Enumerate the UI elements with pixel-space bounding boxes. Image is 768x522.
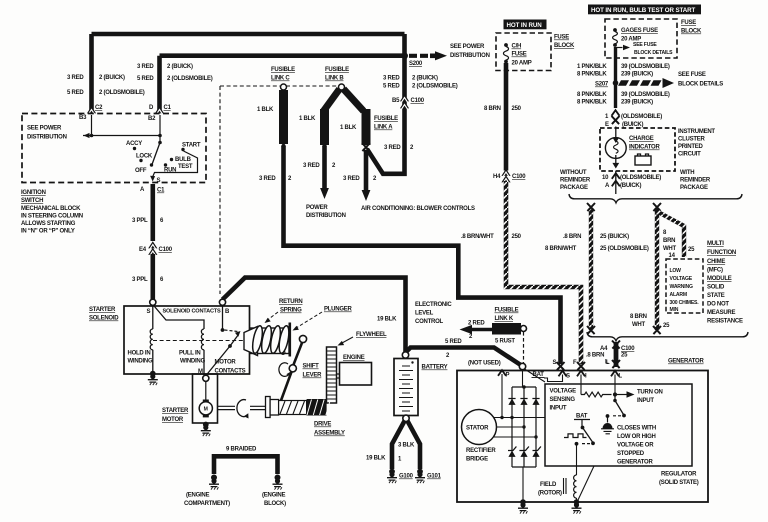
- svg-text:VOLTAGE OR: VOLTAGE OR: [617, 443, 654, 449]
- svg-text:DISTRIBUTION: DISTRIBUTION: [450, 53, 490, 59]
- svg-text:3 BLK: 3 BLK: [398, 443, 415, 449]
- svg-text:INPUT: INPUT: [637, 398, 654, 404]
- svg-text:BLOCK: BLOCK: [554, 43, 575, 49]
- svg-text:GENERATOR: GENERATOR: [617, 460, 653, 466]
- svg-text:HOT IN RUN: HOT IN RUN: [507, 22, 543, 29]
- svg-text:AIR CONDITIONING: BLOWER CONTR: AIR CONDITIONING: BLOWER CONTROLS: [361, 206, 475, 212]
- svg-text:3 PPL: 3 PPL: [132, 277, 148, 283]
- svg-text:S: S: [566, 374, 570, 380]
- svg-text:SEE FUSE: SEE FUSE: [633, 42, 657, 48]
- rotation arc at shift lever: [279, 363, 289, 377]
- svg-text:2 (OLDSMOBILE): 2 (OLDSMOBILE): [99, 90, 145, 96]
- wire: .8 BRN/WHT 250 to generator I terminal (striped): [506, 181, 581, 364]
- svg-text:(OLDSMOBILE): (OLDSMOBILE): [620, 175, 661, 181]
- svg-text:FUSE: FUSE: [681, 20, 696, 26]
- svg-text:1 BLK: 1 BLK: [257, 107, 274, 113]
- svg-text:ALARM: ALARM: [670, 292, 687, 298]
- svg-text:CLUSTER: CLUSTER: [678, 137, 706, 143]
- svg-text:250: 250: [512, 106, 522, 112]
- svg-text:(SOLID STATE): (SOLID STATE): [659, 480, 699, 486]
- switch: closes with low/high voltage: [614, 397, 616, 401]
- svg-text:5 RED: 5 RED: [67, 90, 84, 96]
- connector C1: [155, 106, 164, 114]
- svg-text:39 (OLDSMOBILE): 39 (OLDSMOBILE): [621, 92, 670, 98]
- svg-text:14: 14: [669, 253, 676, 259]
- wire: 8 BRN 250 from C/H fuse: [504, 63, 509, 171]
- svg-text:8 BRN/WHT: 8 BRN/WHT: [545, 246, 577, 252]
- ground: engine compartment: [211, 475, 217, 481]
- banner HOT IN RUN: [504, 20, 547, 30]
- svg-text:39 (OLDSMOBILE): 39 (OLDSMOBILE): [621, 64, 670, 70]
- svg-text:C2: C2: [95, 105, 103, 111]
- svg-text:BAT: BAT: [576, 414, 588, 420]
- svg-text:MOTOR: MOTOR: [215, 360, 237, 366]
- svg-text:HOLD IN: HOLD IN: [128, 351, 151, 357]
- svg-text:S: S: [553, 360, 557, 366]
- MFC module box: [666, 259, 703, 313]
- svg-text:3 RED: 3 RED: [383, 76, 400, 82]
- svg-text:STATE: STATE: [707, 293, 725, 299]
- svg-text:DISTRIBUTION: DISTRIBUTION: [27, 135, 67, 141]
- wire: 3 RED feed to ignition C2: [92, 34, 405, 110]
- svg-text:LOW: LOW: [670, 268, 682, 274]
- svg-text:STATOR: STATOR: [466, 426, 489, 432]
- hold-in winding: [152, 306, 154, 330]
- wire: link B output arrow to power distribution: [322, 146, 327, 188]
- svg-text:WITH: WITH: [680, 170, 694, 176]
- starter motor: [193, 374, 218, 423]
- connector A4 C100 and L stub: [614, 342, 619, 367]
- svg-text:RECTIFIER: RECTIFIER: [466, 448, 496, 454]
- wire: 5 RED battery to generator BAT: [406, 348, 522, 366]
- svg-text:BLOCK): BLOCK): [264, 501, 286, 507]
- svg-text:3 RED: 3 RED: [137, 64, 154, 70]
- svg-text:POWER: POWER: [306, 205, 328, 211]
- svg-text:DO NOT: DO NOT: [707, 302, 729, 308]
- svg-text:WHT: WHT: [663, 246, 676, 252]
- svg-text:VOLTAGE: VOLTAGE: [550, 389, 577, 395]
- svg-text:PULL IN: PULL IN: [179, 351, 200, 357]
- svg-text:GENERATOR: GENERATOR: [668, 359, 704, 365]
- svg-text:10: 10: [602, 175, 609, 181]
- svg-text:FIELD: FIELD: [540, 482, 557, 488]
- wire: battery negative legs: [403, 415, 409, 421]
- svg-text:C1: C1: [157, 188, 165, 194]
- svg-text:B3: B3: [79, 115, 87, 121]
- svg-text:MULTI: MULTI: [707, 241, 724, 247]
- svg-text:ENGINE: ENGINE: [343, 355, 365, 361]
- motor contacts: [222, 306, 224, 329]
- svg-text:CHARGE: CHARGE: [629, 136, 654, 142]
- svg-text:(NOT USED): (NOT USED): [468, 361, 501, 367]
- ground: engine block: [275, 475, 281, 481]
- svg-text:BRN: BRN: [663, 238, 675, 244]
- svg-text:C100: C100: [621, 346, 635, 352]
- svg-text:5 RUST: 5 RUST: [495, 339, 515, 345]
- svg-text:FUSIBLE: FUSIBLE: [374, 116, 398, 122]
- wire: main 3 RED feed S200 to battery junction: [367, 34, 407, 174]
- wire: 19 BLK battery positive cable to solenoid B: [223, 275, 406, 352]
- svg-text:.8 BRN: .8 BRN: [586, 353, 604, 359]
- svg-text:LINK A: LINK A: [374, 125, 393, 131]
- svg-text:SOLID: SOLID: [707, 285, 725, 291]
- ground: hold-in winding: [150, 371, 156, 377]
- svg-text:300 CHIMES.: 300 CHIMES.: [670, 300, 700, 306]
- svg-text:MOTOR: MOTOR: [162, 417, 184, 423]
- plunger linkage dashed: [153, 340, 243, 342]
- svg-text:REMINDER: REMINDER: [560, 178, 591, 184]
- svg-text:TURN ON: TURN ON: [637, 390, 663, 396]
- svg-text:2 (BUICK): 2 (BUICK): [412, 76, 438, 82]
- svg-text:(ENGINE: (ENGINE: [186, 493, 210, 499]
- svg-text:BLOCK: BLOCK: [681, 29, 702, 35]
- svg-text:LOCK: LOCK: [136, 154, 153, 160]
- svg-text:LINK K: LINK K: [495, 316, 514, 322]
- svg-text:MIN: MIN: [670, 307, 679, 313]
- terminal M: [203, 375, 209, 381]
- svg-text:5 RED: 5 RED: [383, 84, 400, 90]
- svg-text:8 BRN: 8 BRN: [484, 106, 501, 112]
- svg-text:.8 BRN: .8 BRN: [563, 234, 581, 240]
- svg-text:IN STEERING COLUMN: IN STEERING COLUMN: [21, 214, 83, 220]
- svg-text:WINDING: WINDING: [180, 359, 205, 365]
- svg-text:INDICATOR: INDICATOR: [629, 145, 660, 151]
- svg-text:C100: C100: [159, 247, 173, 253]
- svg-text:VOLTAGE: VOLTAGE: [670, 276, 693, 282]
- svg-text:8 PNK/BLK: 8 PNK/BLK: [577, 72, 607, 78]
- svg-text:CONTROL: CONTROL: [415, 319, 443, 325]
- svg-text:MODULE: MODULE: [707, 276, 732, 282]
- svg-text:FUSIBLE: FUSIBLE: [325, 67, 349, 73]
- svg-text:HOT IN RUN, BULB TEST OR START: HOT IN RUN, BULB TEST OR START: [591, 7, 695, 14]
- shift lever: [299, 335, 306, 342]
- svg-text:239 (BUICK): 239 (BUICK): [621, 100, 653, 106]
- svg-text:3 RED: 3 RED: [343, 176, 360, 182]
- resistor: [581, 392, 611, 397]
- brace: reminder package split: [569, 194, 742, 203]
- generator box: [457, 371, 708, 503]
- svg-text:STOPPED: STOPPED: [617, 451, 645, 457]
- svg-text:FUSIBLE: FUSIBLE: [271, 67, 295, 73]
- svg-text:F: F: [573, 360, 577, 366]
- svg-text:SWITCH: SWITCH: [21, 198, 43, 204]
- ground G100: [389, 469, 395, 475]
- switch: field drive: [583, 428, 593, 443]
- svg-text:P: P: [506, 373, 510, 379]
- fusible link A: [344, 89, 364, 111]
- svg-text:INSTRUMENT: INSTRUMENT: [678, 129, 715, 135]
- svg-text:LOW OR HIGH: LOW OR HIGH: [617, 434, 656, 440]
- svg-text:WITHOUT: WITHOUT: [560, 170, 587, 176]
- svg-text:CHIME: CHIME: [707, 259, 725, 265]
- svg-text:SENSING: SENSING: [550, 397, 576, 403]
- diodes lower: [508, 451, 539, 457]
- svg-text:3 RED: 3 RED: [259, 176, 276, 182]
- wire: ignition feed bus with arrow to power distribution: [83, 115, 160, 143]
- svg-text:LEVEL: LEVEL: [415, 311, 434, 317]
- svg-text:ACCY: ACCY: [126, 141, 142, 147]
- svg-text:19 BLK: 19 BLK: [377, 317, 397, 323]
- stator: [462, 410, 497, 445]
- svg-text:REGULATOR: REGULATOR: [661, 472, 697, 478]
- svg-text:FUNCTION: FUNCTION: [707, 250, 736, 256]
- svg-text:3 RED: 3 RED: [303, 163, 320, 169]
- svg-text:WINDING: WINDING: [128, 359, 153, 365]
- svg-text:SOLENOID CONTACTS: SOLENOID CONTACTS: [163, 309, 221, 315]
- svg-text:25: 25: [621, 353, 628, 359]
- svg-text:WARNING: WARNING: [670, 284, 693, 290]
- svg-text:2 (BUICK): 2 (BUICK): [99, 75, 125, 81]
- svg-text:3 PPL: 3 PPL: [132, 218, 148, 224]
- svg-text:S207: S207: [595, 82, 609, 88]
- svg-text:H4: H4: [493, 174, 501, 180]
- svg-text:IN “N” OR “P” ONLY: IN “N” OR “P” ONLY: [21, 229, 75, 235]
- svg-text:REMINDER: REMINDER: [680, 178, 711, 184]
- svg-text:LEVER: LEVER: [303, 373, 323, 379]
- svg-text:19 BLK: 19 BLK: [366, 456, 386, 462]
- arrow: turn on input: [617, 394, 627, 396]
- svg-text:BULB: BULB: [175, 157, 192, 163]
- svg-text:ELECTRONIC: ELECTRONIC: [415, 302, 452, 308]
- svg-text:5 RED: 5 RED: [445, 339, 462, 345]
- C/H fuse block box: [496, 33, 551, 71]
- svg-text:8 PNK/BLK: 8 PNK/BLK: [577, 92, 607, 98]
- ignition switch rotary contacts: [158, 141, 162, 145]
- splice S207: [613, 80, 619, 86]
- stator taps: [494, 417, 545, 419]
- terminal P: [501, 374, 503, 417]
- connector C2: [87, 106, 96, 114]
- hatched arrow: see fuse block details: [618, 80, 662, 85]
- wire: indicator output: [615, 171, 617, 194]
- svg-text:LINK B: LINK B: [325, 76, 344, 82]
- braided ground strap: [214, 456, 278, 474]
- svg-text:S200: S200: [409, 61, 423, 67]
- svg-text:(ROTOR): (ROTOR): [538, 491, 562, 497]
- svg-text:FUSE: FUSE: [512, 52, 527, 58]
- svg-text:RETURN: RETURN: [279, 299, 303, 305]
- svg-text:8 BRN: 8 BRN: [630, 314, 647, 320]
- return spring coils: [251, 325, 291, 354]
- ground: starter motor: [203, 422, 209, 428]
- drive assembly: [218, 406, 235, 409]
- battery icon: [635, 156, 651, 165]
- svg-text:5 RED: 5 RED: [137, 76, 154, 82]
- svg-text:1 PNK/BLK: 1 PNK/BLK: [577, 64, 607, 70]
- svg-text:(OLDSMOBILE): (OLDSMOBILE): [621, 114, 662, 120]
- svg-text:PRINTED: PRINTED: [678, 144, 704, 150]
- terminal I: [577, 362, 585, 370]
- svg-text:CLOSES WITH: CLOSES WITH: [617, 426, 656, 432]
- fuse C/H 20A: [504, 43, 508, 47]
- svg-text:G101: G101: [427, 474, 442, 480]
- svg-text:GAGES FUSE: GAGES FUSE: [621, 28, 658, 34]
- banner HOT IN RUN, BULB TEST OR START: [588, 5, 701, 15]
- svg-text:BLOCK DETAILS: BLOCK DETAILS: [678, 82, 723, 88]
- svg-text:8 PNK/BLK: 8 PNK/BLK: [577, 100, 607, 106]
- svg-text:(MFC): (MFC): [707, 268, 723, 274]
- svg-text:DRIVE: DRIVE: [314, 422, 331, 428]
- svg-text:1 BLK: 1 BLK: [340, 125, 357, 131]
- svg-text:B2: B2: [148, 116, 156, 122]
- svg-text:20 AMP: 20 AMP: [512, 61, 532, 67]
- svg-text:PACKAGE: PACKAGE: [560, 185, 588, 191]
- wire: gages fuse to S207: [614, 47, 617, 108]
- field rotor: [576, 444, 578, 475]
- svg-text:RESISTANCE: RESISTANCE: [707, 319, 743, 325]
- connector 1/E to printed circuit: [612, 110, 620, 116]
- bridge to ground: [522, 467, 524, 502]
- svg-text:C100: C100: [411, 98, 425, 104]
- brace: merge to A4: [587, 332, 748, 341]
- svg-text:WHT: WHT: [632, 322, 645, 328]
- svg-text:S: S: [147, 309, 151, 315]
- svg-text:M: M: [204, 407, 208, 413]
- svg-text:9 BRAIDED: 9 BRAIDED: [226, 447, 257, 453]
- wire: .8 BRN 25 without-reminder branch (striped): [590, 208, 592, 330]
- svg-text:PACKAGE: PACKAGE: [680, 185, 708, 191]
- svg-text:STARTER: STARTER: [89, 307, 116, 313]
- svg-text:CIRCUIT: CIRCUIT: [678, 152, 701, 158]
- starter solenoid box: [124, 306, 250, 374]
- svg-text:S: S: [157, 178, 161, 184]
- pull-in winding: [155, 307, 205, 330]
- svg-text:B5: B5: [392, 98, 400, 104]
- svg-text:250: 250: [512, 234, 522, 240]
- charge indicator bulb: [605, 138, 626, 159]
- svg-text:OFF: OFF: [135, 168, 147, 174]
- svg-text:239 (BUICK): 239 (BUICK): [621, 72, 653, 78]
- splice S200: [402, 53, 408, 59]
- diodes upper: [508, 399, 539, 405]
- wire: link C output 3 RED to generator S: [284, 146, 561, 364]
- svg-text:BATTERY: BATTERY: [422, 365, 448, 371]
- wire: 8 BRN/WHT 25 with-reminder branch (striped): [656, 208, 658, 330]
- charge indicator box: [600, 128, 675, 171]
- svg-text:START: START: [182, 143, 201, 149]
- svg-text:STARTER: STARTER: [162, 408, 189, 414]
- svg-text:BLOCK DETAILS: BLOCK DETAILS: [634, 50, 673, 56]
- battery: [402, 352, 408, 358]
- dashed locator line to fusible links: [220, 86, 338, 294]
- svg-text:E4: E4: [139, 247, 147, 253]
- svg-text:3 RED: 3 RED: [384, 145, 401, 151]
- fuse GAGES 20A: [613, 28, 617, 32]
- svg-text:2 (BUICK): 2 (BUICK): [167, 64, 193, 70]
- wire: link A output arrow to A/C blower: [364, 150, 369, 190]
- svg-text:SEE FUSE: SEE FUSE: [678, 72, 706, 78]
- ignition switch box: [22, 114, 206, 183]
- terminal BAT: [519, 363, 525, 369]
- arrow: see power distribution: [409, 54, 428, 58]
- start detent path: [153, 151, 198, 177]
- svg-text:FUSIBLE: FUSIBLE: [495, 308, 519, 314]
- svg-text:C100: C100: [512, 174, 526, 180]
- svg-text:LINK C: LINK C: [271, 76, 290, 82]
- svg-text:DISTRIBUTION: DISTRIBUTION: [306, 213, 346, 219]
- svg-text:CONTACTS: CONTACTS: [215, 369, 246, 375]
- svg-text:.8 BRN/WHT: .8 BRN/WHT: [461, 234, 494, 240]
- svg-text:25 (OLDSMOBILE): 25 (OLDSMOBILE): [600, 246, 649, 252]
- svg-text:PLUNGER: PLUNGER: [324, 307, 353, 313]
- svg-text:SHIFT: SHIFT: [303, 364, 320, 370]
- terminal B: [219, 299, 225, 305]
- svg-text:3 RED: 3 RED: [67, 75, 84, 81]
- svg-text:C1: C1: [164, 105, 172, 111]
- rectifier bridge frame: [512, 387, 536, 467]
- gages fuse block box: [605, 19, 677, 58]
- svg-text:ALLOWS STARTING: ALLOWS STARTING: [21, 221, 76, 227]
- wire: 3 RED feed to ignition C1: [160, 56, 404, 110]
- svg-text:FUSE: FUSE: [554, 35, 569, 41]
- svg-text:SEE POWER: SEE POWER: [450, 44, 485, 50]
- svg-text:1 BLK: 1 BLK: [299, 116, 316, 122]
- svg-text:2 (OLDSMOBILE): 2 (OLDSMOBILE): [412, 84, 458, 90]
- connector E4 C100: [148, 241, 157, 249]
- svg-text:G100: G100: [399, 474, 414, 480]
- svg-text:25: 25: [663, 323, 670, 329]
- svg-text:MECHANICAL BLOCK: MECHANICAL BLOCK: [21, 206, 81, 212]
- svg-text:C/H: C/H: [512, 44, 522, 50]
- svg-text:BRIDGE: BRIDGE: [466, 457, 488, 463]
- PWM squarewave: [564, 434, 587, 438]
- connector B5 C100: [400, 94, 409, 102]
- svg-text:INPUT: INPUT: [550, 406, 567, 412]
- terminal S: [557, 362, 565, 370]
- svg-text:SPRING: SPRING: [280, 308, 302, 314]
- regulator box: [545, 384, 692, 466]
- wire: 3 PPL start signal: [151, 184, 156, 241]
- svg-text:SOLENOID: SOLENOID: [89, 316, 119, 322]
- svg-text:SEE POWER: SEE POWER: [27, 126, 62, 132]
- svg-text:2 (OLDSMOBILE): 2 (OLDSMOBILE): [167, 76, 213, 82]
- svg-text:ASSEMBLY: ASSEMBLY: [314, 431, 345, 437]
- ground G101: [417, 469, 423, 475]
- svg-text:25: 25: [688, 247, 695, 253]
- svg-text:L: L: [619, 374, 623, 380]
- svg-text:COMPARTMENT): COMPARTMENT): [184, 501, 230, 507]
- connector H4 C100: [501, 169, 510, 177]
- wire: branch to MFC module pin 14 (striped): [658, 212, 684, 257]
- svg-text:FLYWHEEL: FLYWHEEL: [356, 332, 387, 338]
- svg-text:TEST: TEST: [178, 164, 193, 170]
- svg-text:(ENGINE: (ENGINE: [262, 493, 286, 499]
- svg-text:IGNITION: IGNITION: [21, 190, 46, 196]
- svg-text:MEASURE: MEASURE: [707, 310, 736, 316]
- svg-text:A4: A4: [600, 346, 608, 352]
- svg-text:L: L: [605, 360, 609, 366]
- plunger body: [250, 328, 289, 354]
- svg-text:(BUICK): (BUICK): [620, 183, 641, 189]
- svg-text:25 (BUICK): 25 (BUICK): [600, 234, 629, 240]
- terminal S: [150, 299, 156, 305]
